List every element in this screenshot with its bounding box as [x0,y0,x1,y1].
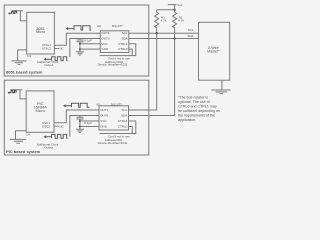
svg-text:VCC: VCC [100,119,107,123]
svg-text:VCC: VCC [102,42,109,46]
svg-text:U4: U4 [26,132,30,136]
svg-text:*The bus master is: *The bus master is [178,96,208,100]
svg-text:U5: U5 [96,102,100,106]
svg-text:the requirements of the: the requirements of the [178,114,215,118]
svg-text:XTAL2: XTAL2 [42,46,51,50]
svg-text:CTRL1: CTRL1 [118,119,128,123]
svg-text:SCL: SCL [188,28,194,32]
svg-text:Micro: Micro [36,109,45,113]
svg-text:DS1077: DS1077 [111,102,122,106]
svg-text:U1: U1 [27,54,31,58]
svg-text:Device Identifier=1011: Device Identifier=1011 [98,141,128,145]
svg-text:OSC2: OSC2 [42,124,51,128]
svg-text:0.1μF: 0.1μF [84,121,92,125]
svg-text:CTRL0 and CTRL1 may: CTRL0 and CTRL1 may [178,105,217,109]
svg-text:Vcc: Vcc [177,3,183,7]
svg-text:be sufficient depending on: be sufficient depending on [178,109,220,113]
svg-text:8051 based system: 8051 based system [6,70,43,75]
svg-text:application.: application. [178,118,196,122]
svg-text:4.7k: 4.7k [178,18,184,22]
svg-text:SDA: SDA [121,114,127,118]
svg-text:SDA: SDA [187,34,193,38]
svg-text:SDA: SDA [121,37,127,41]
svg-text:OUT0: OUT0 [100,114,108,118]
svg-text:OUT0: OUT0 [102,37,110,41]
svg-text:U2: U2 [97,24,101,28]
svg-text:CTRL0: CTRL0 [118,47,128,51]
svg-text:Master*: Master* [207,49,220,53]
svg-text:0.1μF: 0.1μF [84,38,92,42]
svg-text:SCL: SCL [121,108,127,112]
svg-text:CTRL0: CTRL0 [118,125,128,129]
svg-text:SCL: SCL [122,31,128,35]
svg-text:CTRL1: CTRL1 [118,42,128,46]
svg-text:Output: Output [44,63,53,67]
svg-text:GND: GND [100,125,108,129]
svg-text:Output: Output [44,146,53,150]
svg-text:Micro: Micro [36,30,45,34]
svg-text:PIC based system: PIC based system [6,149,41,154]
svg-text:optional. The use of: optional. The use of [178,100,210,104]
svg-text:GND: GND [102,47,110,51]
svg-text:4.7k: 4.7k [161,18,167,22]
svg-text:OUT1: OUT1 [100,108,108,112]
svg-text:Device Identifier=1011: Device Identifier=1011 [98,62,128,66]
svg-text:OUT1: OUT1 [102,31,110,35]
svg-text:DS1077: DS1077 [112,24,123,28]
